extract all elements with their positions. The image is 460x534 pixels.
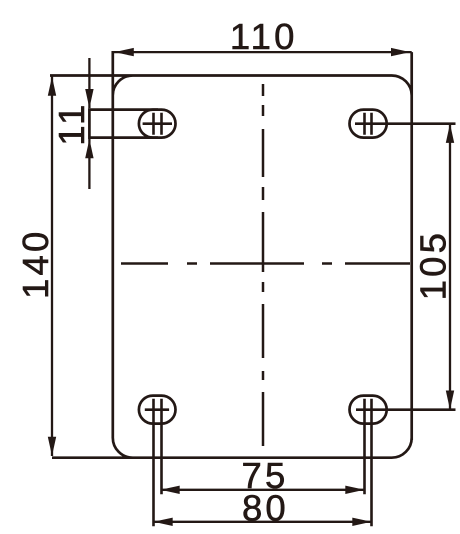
cross marks bottom-left hole + 75/80 extensions [145, 399, 169, 527]
cross marks top-left hole [143, 113, 172, 135]
arrow 80 left [154, 518, 173, 526]
svg-text:11: 11 [51, 101, 92, 145]
slot hole bottom-right [350, 396, 387, 424]
dim line 110 [113, 51, 412, 53]
slot hole top-left edge lines [89, 108, 158, 139]
arrow 11 down [85, 89, 93, 108]
slot hole top-right [350, 110, 387, 138]
arrow 75 left [161, 486, 180, 494]
dim line 80 [154, 521, 372, 523]
slot hole bottom-left [139, 396, 176, 424]
arrow 11 up [85, 139, 93, 158]
centerline vertical [262, 84, 265, 446]
svg-text:80: 80 [242, 487, 289, 528]
svg-text:110: 110 [230, 16, 298, 57]
cross marks top-right hole + 105 top extension [355, 113, 456, 135]
dim line 11 [88, 58, 90, 189]
arrow 105 down [446, 391, 454, 410]
plate outline [50, 51, 412, 458]
dim line 140 [51, 77, 53, 457]
arrow 75 right [345, 486, 364, 494]
arrow 140 up [48, 77, 56, 96]
svg-text:105: 105 [413, 230, 454, 301]
arrow 105 up [446, 124, 454, 143]
slot hole top-left [139, 110, 176, 138]
arrow 80 right [352, 518, 371, 526]
centerline horizontal [121, 262, 410, 265]
dim line 75 [161, 489, 365, 491]
dim line 105 [449, 124, 451, 410]
cross marks bottom-right hole + extensions [356, 399, 456, 527]
arrow 140 down [48, 437, 56, 456]
arrow 110 left [115, 48, 134, 56]
arrow 110 right [391, 48, 410, 56]
svg-text:140: 140 [15, 228, 56, 299]
